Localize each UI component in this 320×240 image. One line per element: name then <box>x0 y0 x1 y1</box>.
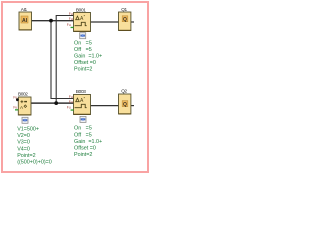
svg-text:B003: B003 <box>76 89 86 94</box>
svg-text:Q: Q <box>123 102 127 108</box>
svg-text:Off =5: Off =5 <box>74 47 92 53</box>
svg-text:B001: B001 <box>76 7 86 12</box>
svg-text:Gain =1.0+: Gain =1.0+ <box>74 53 102 59</box>
svg-text:Fu.: Fu. <box>69 100 74 104</box>
svg-text:Fu: Fu <box>13 95 17 99</box>
svg-text:Point=2: Point=2 <box>74 152 92 158</box>
svg-text:Point=2: Point=2 <box>17 153 35 159</box>
svg-text:Offset =0: Offset =0 <box>74 60 96 66</box>
svg-text:Off =5: Off =5 <box>74 132 92 138</box>
svg-text:Fu: Fu <box>13 105 17 109</box>
svg-text:Q2: Q2 <box>121 88 127 93</box>
wire stub Q2 right <box>131 105 134 107</box>
svg-text:Q: Q <box>123 17 127 23</box>
svg-text:((500+0)+0)=0: ((500+0)+0)=0 <box>17 159 52 165</box>
svg-text:On =5: On =5 <box>74 126 92 132</box>
wire AI1 out to B001 pin2 <box>32 20 74 22</box>
wire B002 out to B003 pin2 <box>31 102 74 104</box>
svg-text:V4=0: V4=0 <box>17 146 30 152</box>
analog trigger block B001 <box>74 7 91 31</box>
green mark B003 pin3 <box>71 109 74 110</box>
param icon under B002 <box>22 117 28 123</box>
page background <box>0 0 150 174</box>
analog trigger block B003 <box>74 89 91 114</box>
svg-text:Fu.: Fu. <box>69 17 74 21</box>
svg-text:Point=2: Point=2 <box>74 67 92 73</box>
svg-text:B002: B002 <box>18 91 28 96</box>
svg-text:Fu.: Fu. <box>67 106 72 110</box>
param icon under B003 <box>80 116 86 122</box>
wire B001 out to Q1 <box>91 21 119 23</box>
node B junction dot <box>54 101 58 105</box>
param icon under B001 <box>80 33 86 39</box>
svg-text:Q1: Q1 <box>121 7 127 12</box>
green mark B001 pin3 <box>71 27 74 28</box>
green mark B002 <box>15 109 18 110</box>
page border frame <box>2 2 148 172</box>
svg-text:AI1: AI1 <box>21 7 28 12</box>
wire junction up from node B to B001 pin1 <box>56 16 73 104</box>
svg-text:AI: AI <box>22 18 28 24</box>
node A junction dot <box>49 19 53 23</box>
output block Q2 <box>119 88 131 114</box>
pin dot B002 En <box>16 98 19 101</box>
wire junction down from node A to B003 pin1 <box>51 21 74 99</box>
svg-text:Fu.: Fu. <box>69 95 74 99</box>
svg-text:On =5: On =5 <box>74 40 92 46</box>
svg-text:V1=500+: V1=500+ <box>17 127 39 133</box>
svg-text:Offset =0: Offset =0 <box>74 145 96 151</box>
analog input AI1 <box>19 7 32 30</box>
svg-text:V3=0: V3=0 <box>17 140 30 146</box>
svg-text:Fu.: Fu. <box>69 12 74 16</box>
wire B003 out to Q2 <box>91 105 119 107</box>
wire stub Q1 right <box>131 21 134 23</box>
output block Q1 <box>119 7 131 30</box>
svg-text:Gain =1.0+: Gain =1.0+ <box>74 139 102 145</box>
svg-text:Fu.: Fu. <box>67 23 72 27</box>
svg-text:V2=0: V2=0 <box>17 133 30 139</box>
math block B002 <box>18 91 31 115</box>
